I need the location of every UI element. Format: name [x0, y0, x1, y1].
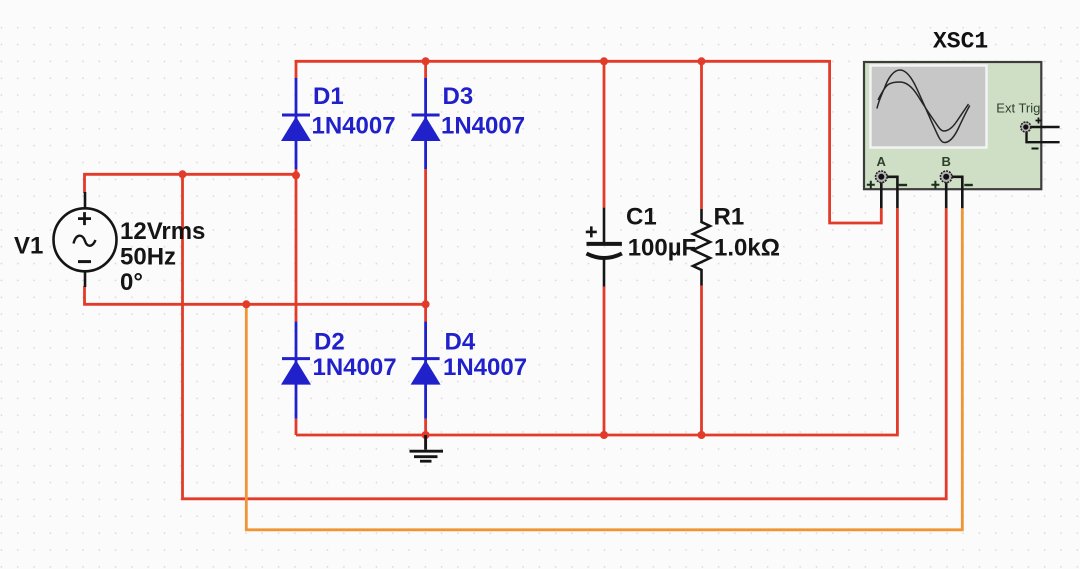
node junction V1top-D1-D2: [292, 171, 300, 179]
diode D1: [281, 78, 311, 169]
pigtail A minus black: [887, 177, 898, 209]
scope trace outer: [877, 70, 970, 143]
Ext Trig connector: [1021, 122, 1031, 132]
svg-text:B: B: [942, 154, 951, 169]
wire R1 top red: [700, 61, 703, 209]
svg-text:D3: D3: [443, 83, 474, 110]
svg-text:50Hz: 50Hz: [120, 244, 176, 271]
svg-text:R1: R1: [714, 204, 745, 231]
wire C1 bottom red: [603, 287, 606, 436]
svg-text:12Vrms: 12Vrms: [120, 218, 205, 245]
resistor R1: [693, 209, 710, 286]
pigtail B plus black: [945, 182, 948, 208]
node junction orange tap: [242, 300, 250, 308]
B plus mark: [931, 181, 939, 189]
svg-text:D2: D2: [314, 329, 345, 356]
svg-text:A: A: [877, 154, 887, 169]
diode D4: [411, 322, 441, 419]
connector A: [876, 171, 888, 183]
node junction bottom rail C1: [600, 431, 608, 439]
svg-text:100µF: 100µF: [628, 235, 697, 262]
node junction bottom rail D4: [422, 431, 430, 439]
wire D3-D4 column mid: [424, 169, 427, 322]
diode D2: [281, 322, 311, 419]
wire D3 top red: [424, 61, 427, 78]
node junction B+ tap: [179, 170, 187, 178]
Ext Trig wire right: [1031, 126, 1060, 128]
wire top rail to scope A+: [296, 61, 881, 223]
node junction D3D4 mid: [422, 300, 430, 308]
svg-text:0°: 0°: [120, 269, 143, 296]
node junction top rail R1: [698, 57, 706, 65]
svg-text:Ext Trig: Ext Trig: [996, 100, 1040, 115]
voltage source V1: [54, 192, 117, 287]
wire C1 top red: [603, 61, 606, 207]
wire B+ tap down-left vertical: [183, 174, 947, 499]
wire bottom rail to scope A-: [296, 208, 897, 435]
svg-text:1.0kΩ: 1.0kΩ: [714, 235, 780, 262]
pigtail B minus black: [952, 177, 963, 209]
node junction top rail C1: [600, 57, 608, 65]
connector B: [940, 171, 952, 183]
wire V1 top to bridge node: [85, 174, 297, 193]
wire D4 bottom red: [424, 419, 427, 435]
node junction bottom rail R1: [698, 431, 706, 439]
svg-text:1N4007: 1N4007: [313, 354, 397, 381]
svg-text:XSC1: XSC1: [933, 29, 988, 55]
B minus mark: [964, 184, 973, 186]
node junction top rail D3: [422, 57, 430, 65]
wire D1-D2 column mid: [295, 169, 298, 322]
svg-text:C1: C1: [626, 204, 657, 231]
oscilloscope XSC1 body: [864, 62, 1041, 189]
wire V1 bottom to D3D4 node: [85, 286, 426, 304]
A minus mark: [899, 184, 908, 186]
capacitor C1: [586, 208, 622, 287]
svg-text:D4: D4: [445, 329, 476, 356]
wire D2 bottom red: [295, 419, 298, 435]
Ext Trig wire L: [1027, 130, 1060, 142]
A plus mark: [867, 181, 875, 189]
svg-text:V1: V1: [14, 233, 43, 260]
diode D3: [411, 78, 441, 169]
scope trace inner: [878, 82, 969, 131]
svg-text:1N4007: 1N4007: [443, 354, 527, 381]
svg-text:1N4007: 1N4007: [441, 113, 525, 140]
svg-text:1N4007: 1N4007: [312, 113, 396, 140]
wire R1 bottom red: [700, 286, 703, 436]
wire B- orange: [246, 208, 962, 530]
scope screen: [871, 66, 987, 148]
ground: [410, 435, 444, 461]
Ext Trig plus minus: [1036, 118, 1042, 124]
pigtail A plus black: [880, 182, 883, 208]
svg-text:D1: D1: [313, 83, 344, 110]
